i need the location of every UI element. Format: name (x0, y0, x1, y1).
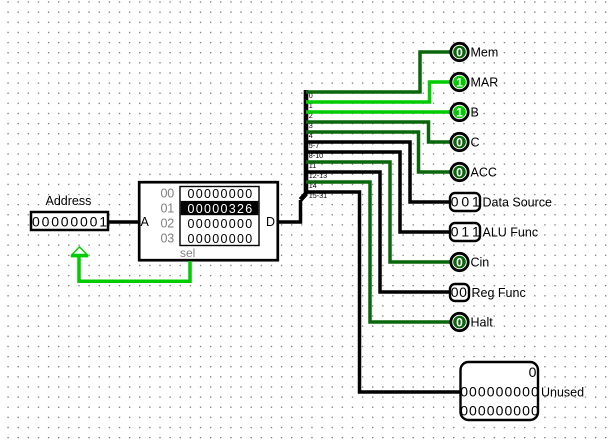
wire from Address pin to ROM A input (109, 220, 138, 224)
output pin Reg Func (2-bit 00) (450, 284, 526, 301)
svg-text:0: 0 (456, 255, 463, 269)
svg-text:000000000: 000000000 (460, 384, 539, 400)
svg-text:Data Source: Data Source (483, 196, 553, 210)
svg-text:02: 02 (161, 217, 175, 231)
svg-text:00: 00 (451, 284, 467, 300)
svg-text:B: B (471, 106, 479, 120)
svg-text:00: 00 (161, 187, 175, 201)
ROM U1 (139, 182, 278, 260)
svg-text:1: 1 (456, 105, 463, 119)
svg-text:Mem: Mem (471, 46, 499, 60)
output pin Mem (0) (451, 43, 498, 60)
wire-end arrow marker (71, 255, 88, 258)
output pin B (1) (451, 103, 479, 120)
wire bits5-7 to Data Source (306, 142, 450, 202)
svg-text:MAR: MAR (471, 76, 499, 90)
svg-text:0: 0 (456, 165, 463, 179)
svg-text:sel: sel (180, 246, 195, 260)
svg-text:0: 0 (456, 315, 463, 329)
output pin ALU Func (3-bit 011) (450, 223, 538, 241)
splitter stem diagonal (301, 194, 307, 200)
svg-text:0: 0 (456, 45, 463, 59)
wire bit11 to Cin (value 0) (306, 162, 451, 262)
svg-text:Address: Address (46, 194, 92, 208)
svg-text:Reg Func: Reg Func (472, 286, 526, 300)
splitter bar (304, 90, 309, 195)
output pin ACC (0) (451, 163, 497, 180)
svg-text:00000326: 00000326 (188, 202, 253, 216)
svg-text:1: 1 (456, 75, 463, 89)
wire bits15-31 to Unused (306, 192, 461, 392)
output pin Unused (wide, value 0) (460, 362, 584, 420)
output pin C (0) (451, 133, 480, 150)
svg-text:0: 0 (529, 364, 537, 380)
svg-text:011: 011 (451, 224, 480, 240)
svg-text:A: A (141, 215, 150, 229)
svg-text:01: 01 (161, 202, 175, 216)
selected row highlight (181, 201, 259, 215)
output pin Halt (0) (451, 313, 493, 330)
wire from ROM D output to splitter (278, 200, 301, 222)
wire bit3 to C (value 0) (306, 122, 451, 142)
svg-text:D: D (266, 215, 275, 229)
svg-text:001: 001 (451, 194, 480, 210)
wire bit4 to ACC (value 0) (306, 132, 451, 172)
svg-text:Cin: Cin (471, 256, 490, 270)
clock wire (sel, value 1) (79, 256, 190, 281)
svg-text:00000001: 00000001 (32, 214, 107, 230)
splitter SP1 (301, 90, 328, 200)
svg-text:00000000: 00000000 (188, 187, 253, 201)
output pin Data Source (3-bit 001) (450, 193, 552, 211)
svg-text:03: 03 (161, 232, 175, 246)
wire bit1 to MAR (value 1) (306, 82, 451, 102)
svg-text:000000000: 000000000 (460, 403, 539, 419)
svg-text:00000000: 00000000 (188, 232, 253, 246)
svg-text:Unused: Unused (541, 386, 584, 400)
wire bit14 to Halt (value 0) (306, 182, 451, 322)
wire bits8-10 to ALU Func (306, 152, 450, 232)
wire bit2 to B (value 1) (306, 110, 451, 114)
output pin Cin (0) (451, 253, 490, 270)
input pin Address (8-bit) (31, 194, 108, 230)
svg-text:ALU Func: ALU Func (483, 226, 539, 240)
svg-text:Halt: Halt (471, 316, 494, 330)
svg-text:ACC: ACC (471, 166, 497, 180)
wire bits12-13 to Reg Func (306, 172, 450, 292)
wire bit0 to Mem (value 0) (306, 52, 451, 92)
output pin MAR (1) (451, 73, 498, 90)
svg-text:00000000: 00000000 (188, 217, 253, 231)
svg-text:C: C (471, 136, 480, 150)
ROM contents list box (180, 187, 259, 246)
svg-text:0: 0 (456, 135, 463, 149)
